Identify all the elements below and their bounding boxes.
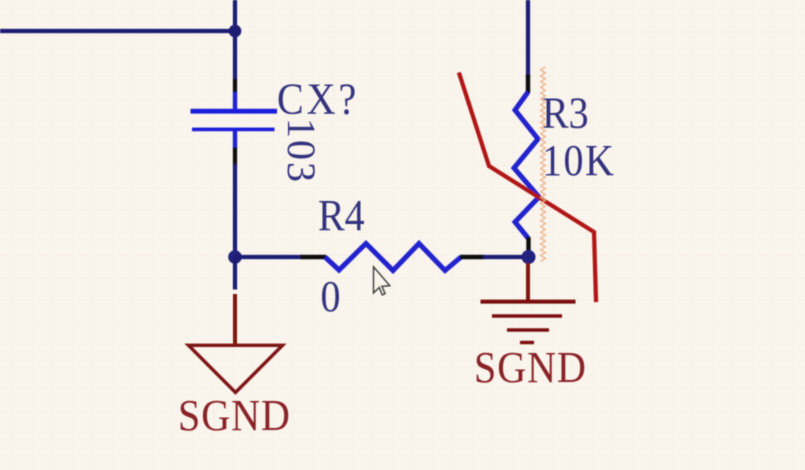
ground SGND bars (481, 302, 576, 343)
capacitor CX? pin 2 (233, 131, 237, 166)
capacitor CX? plates (191, 109, 278, 131)
svg-text:R3: R3 (542, 90, 589, 138)
junction: node B (522, 250, 536, 264)
svg-text:10K: 10K (542, 137, 615, 185)
ground SGND stem (right) (526, 263, 530, 302)
wire: vertical from top to capacitor (233, 0, 237, 81)
power port SGND triangle (189, 345, 283, 392)
wire: resistor R4 to node B (483, 255, 529, 259)
resistor R4 pin 2 (460, 255, 484, 259)
resistor R4 pin 1 (301, 255, 327, 259)
svg-text:CX?: CX? (277, 76, 359, 124)
resistor R3 pin 2 (526, 237, 530, 252)
svg-text:103: 103 (279, 118, 324, 184)
wire: top right vertical net (526, 0, 530, 76)
wire: red routed polyline (460, 75, 597, 301)
wire: capacitor to node A (233, 164, 237, 258)
guide squiggle (541, 67, 546, 261)
svg-text:R4: R4 (318, 192, 365, 240)
wire: top horizontal net (0, 29, 238, 33)
wire: node A to resistor R4 (235, 255, 302, 259)
junction: top node (229, 25, 242, 38)
resistor R3 pin 1 (526, 75, 530, 94)
capacitor CX? pin 1 (233, 79, 237, 110)
svg-text:0: 0 (321, 273, 341, 321)
power port SGND stem (left) (233, 257, 237, 346)
cursor (374, 267, 390, 295)
junction: node A (228, 250, 242, 264)
svg-text:SGND: SGND (178, 392, 291, 440)
resistor R4 body (325, 244, 461, 271)
svg-text:SGND: SGND (474, 344, 587, 392)
resistor R3 body (514, 92, 539, 238)
